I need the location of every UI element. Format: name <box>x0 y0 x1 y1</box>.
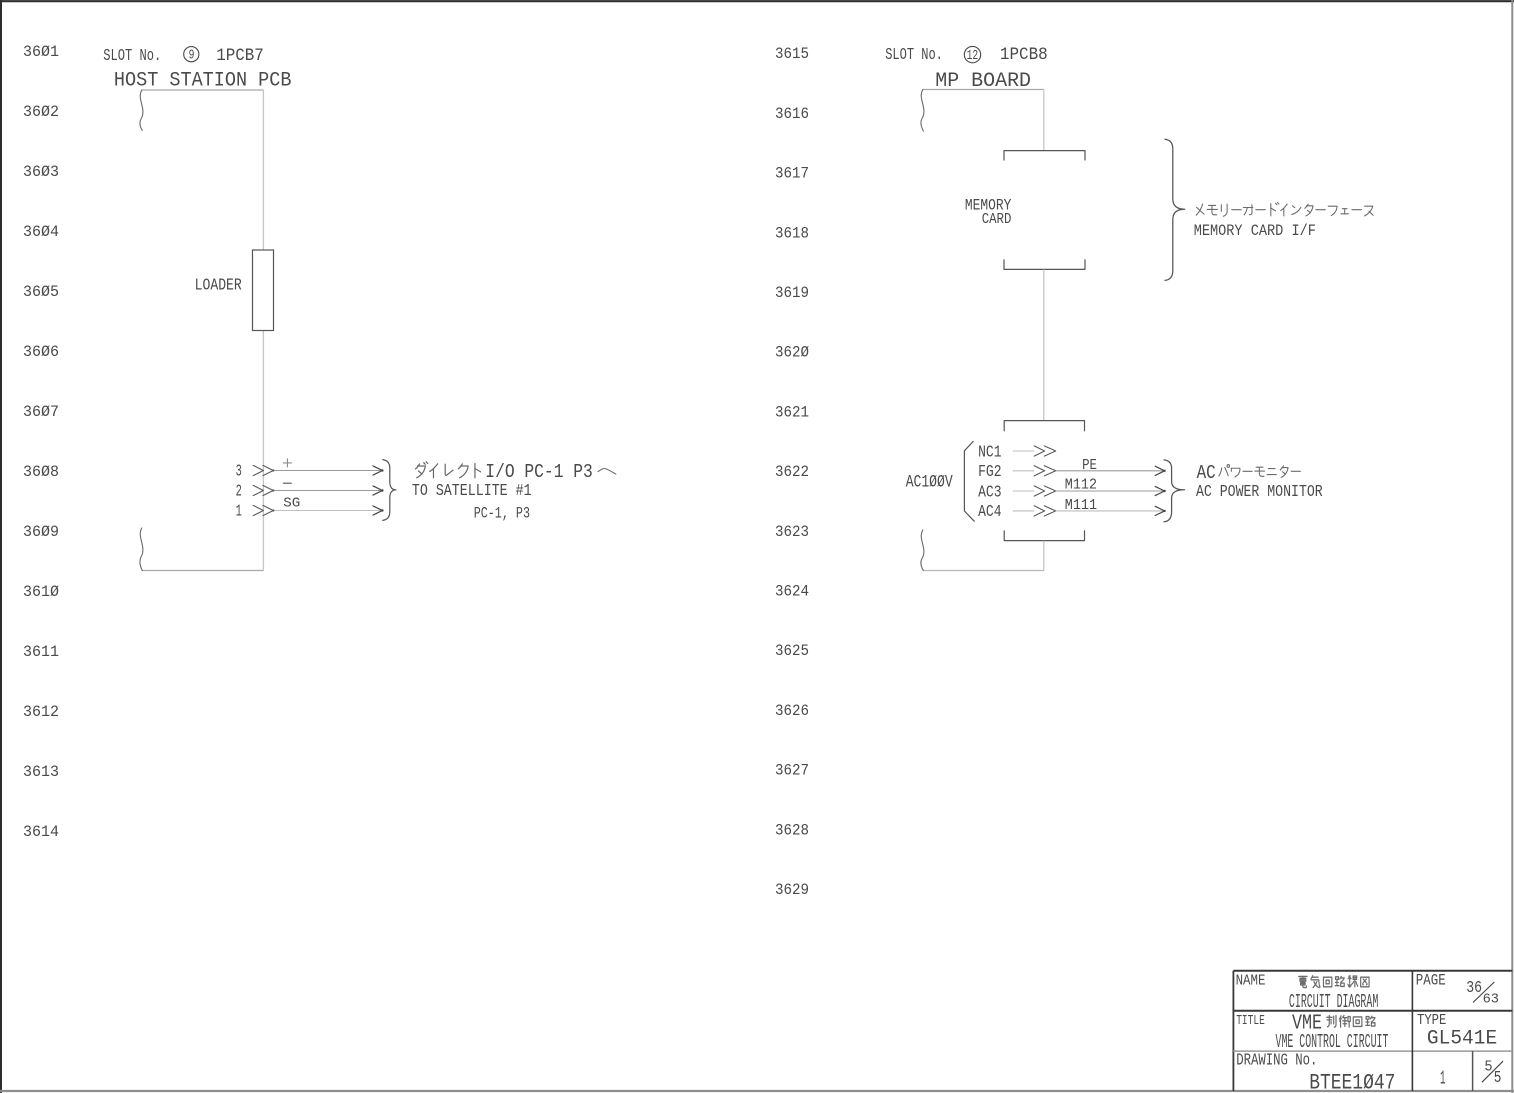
pin 1 wire to satellite <box>273 510 382 512</box>
component MEMORY CARD bottom bracket <box>1004 260 1085 270</box>
pin 1 chevron tip dot <box>272 509 274 511</box>
title block sub divider <box>1472 1051 1474 1091</box>
pin 1 arrow tip dot <box>381 509 383 511</box>
pin FG2 chevron connector <box>1034 466 1056 476</box>
board outline break squiggle bottom-left <box>140 528 143 571</box>
svg-text:361Ø: 361Ø <box>23 583 59 601</box>
svg-text:3621: 3621 <box>775 403 809 421</box>
slot number circle 9 <box>184 47 199 62</box>
svg-text:SLOT No.: SLOT No. <box>885 45 943 64</box>
svg-text:362Ø: 362Ø <box>775 344 809 362</box>
pin 2 arrowhead <box>373 486 382 495</box>
svg-text:PAGE: PAGE <box>1416 971 1446 989</box>
bracket AC100V group <box>964 441 974 521</box>
pin 1 arrowhead <box>373 506 382 515</box>
board outline top wire (left board) <box>142 89 264 91</box>
page border right <box>1511 0 1513 1093</box>
pin FG2 arrow tip dot <box>1163 470 1165 472</box>
pin AC4 wire stub <box>1013 510 1034 512</box>
pin AC4 arrow tip dot <box>1163 510 1165 512</box>
pin FG2 arrowhead <box>1155 466 1164 475</box>
svg-text:LOADER: LOADER <box>195 276 242 295</box>
svg-text:3619: 3619 <box>775 284 809 302</box>
svg-text:1PCB8: 1PCB8 <box>1000 45 1048 65</box>
pin AC4 arrowhead <box>1155 506 1164 515</box>
bus wire below connector <box>1043 541 1045 571</box>
pin 2 arrow tip dot <box>381 489 383 491</box>
page border top <box>0 0 1514 2</box>
svg-text:AC4: AC4 <box>978 502 1001 521</box>
svg-text:M111: M111 <box>1065 496 1097 514</box>
annotation katakana MEMORY CARD INTERFACE (ja) <box>1196 204 1204 215</box>
pin AC3 wire stub <box>1013 490 1034 492</box>
page border bottom <box>0 1090 1514 1092</box>
svg-text:36Ø4: 36Ø4 <box>23 223 59 241</box>
svg-text:63: 63 <box>1483 993 1499 1008</box>
svg-text:2: 2 <box>236 482 242 501</box>
annotation kana HE (ja) <box>598 469 616 475</box>
pin 3 wire to satellite <box>273 470 382 472</box>
svg-text:HOST STATION PCB: HOST STATION PCB <box>114 70 292 93</box>
svg-text:PE: PE <box>1082 456 1097 474</box>
pin 2 chevron tip dot <box>272 489 274 491</box>
pin 3 arrow tip dot <box>381 469 383 471</box>
signal label - <box>283 482 291 484</box>
svg-text:3627: 3627 <box>775 762 809 780</box>
svg-text:5: 5 <box>1494 1068 1502 1087</box>
brace AC power monitor <box>1164 460 1185 522</box>
svg-text:VME CONTROL CIRCUIT: VME CONTROL CIRCUIT <box>1276 1031 1389 1053</box>
title block left edge <box>1232 971 1234 1091</box>
vertical bus wire (left board) <box>262 90 264 571</box>
svg-text:3613: 3613 <box>23 763 59 781</box>
pin AC3 chevron connector <box>1034 486 1056 496</box>
svg-text:36Ø5: 36Ø5 <box>23 283 59 301</box>
svg-text:3622: 3622 <box>775 463 809 481</box>
pin FG2 wire stub <box>1013 470 1034 472</box>
title block row divider 1 <box>1233 1010 1512 1012</box>
svg-text:3629: 3629 <box>775 881 809 899</box>
board outline break squiggle top-right <box>921 90 924 132</box>
svg-text:PC-1, P3: PC-1, P3 <box>474 504 530 522</box>
svg-text:M112: M112 <box>1065 476 1097 494</box>
board outline top wire (right board) <box>923 89 1044 91</box>
svg-text:FG2: FG2 <box>978 462 1001 481</box>
svg-text:CIRCUIT DIAGRAM: CIRCUIT DIAGRAM <box>1289 991 1378 1013</box>
svg-text:3612: 3612 <box>23 703 59 721</box>
svg-text:AC3: AC3 <box>978 482 1001 501</box>
svg-text:36Ø6: 36Ø6 <box>23 343 59 361</box>
svg-text:3617: 3617 <box>775 165 809 183</box>
connector top bracket <box>1004 421 1084 431</box>
title block column divider <box>1411 971 1413 1091</box>
slot number circle 12 <box>964 46 980 62</box>
svg-text:36Ø1: 36Ø1 <box>23 43 59 61</box>
page border left <box>0 0 2 1093</box>
component LOADER box <box>253 250 274 331</box>
title kanji CIRCUIT DIAGRAM (ja) <box>1299 976 1307 987</box>
svg-text:NC1: NC1 <box>978 442 1002 461</box>
svg-text:GL541E: GL541E <box>1427 1028 1497 1051</box>
svg-text:3626: 3626 <box>775 702 809 720</box>
pin 3 chevron connector <box>253 465 273 475</box>
svg-text:MEMORY CARD I/F: MEMORY CARD I/F <box>1194 222 1316 240</box>
pin AC4 wire to monitor <box>1056 510 1165 512</box>
svg-text:36Ø3: 36Ø3 <box>23 163 59 181</box>
pin AC4 chevron connector <box>1034 506 1056 516</box>
annotation katakana POWER MONITOR (ja) <box>1219 465 1230 476</box>
svg-text:36Ø7: 36Ø7 <box>23 403 59 421</box>
svg-text:36: 36 <box>1466 979 1482 998</box>
svg-text:3616: 3616 <box>775 105 809 123</box>
board outline bottom wire (right board) <box>923 570 1044 572</box>
pin AC3 arrowhead <box>1155 486 1164 495</box>
svg-text:TITLE: TITLE <box>1236 1014 1265 1029</box>
svg-text:3618: 3618 <box>775 224 809 242</box>
svg-text:TO SATELLITE #1: TO SATELLITE #1 <box>412 481 532 500</box>
pin 3 chevron tip dot <box>272 469 274 471</box>
svg-text:36Ø9: 36Ø9 <box>23 523 59 541</box>
board outline bottom wire (left board) <box>142 570 264 572</box>
svg-text:3611: 3611 <box>23 643 59 661</box>
svg-text:1: 1 <box>236 502 242 521</box>
signal label + <box>283 459 291 467</box>
title block outer top line <box>1233 970 1512 972</box>
pin 2 chevron connector <box>253 485 273 495</box>
svg-text:1: 1 <box>1440 1067 1446 1089</box>
pin NC1 chevron connector <box>1034 446 1056 456</box>
pin 3 arrowhead <box>373 466 382 475</box>
svg-text:12: 12 <box>967 49 979 64</box>
svg-text:DRAWING No.: DRAWING No. <box>1236 1052 1317 1071</box>
svg-text:AC POWER MONITOR: AC POWER MONITOR <box>1196 482 1323 501</box>
title block row divider 2 <box>1233 1050 1512 1052</box>
svg-text:3614: 3614 <box>23 823 59 841</box>
svg-text:SLOT No.: SLOT No. <box>103 46 161 65</box>
svg-text:3: 3 <box>236 462 242 481</box>
svg-text:36Ø2: 36Ø2 <box>23 103 59 121</box>
pin 2 wire to satellite <box>273 490 382 492</box>
pin FG2 wire to monitor <box>1056 470 1165 472</box>
board outline break squiggle bottom-right <box>921 530 924 571</box>
pin AC3 wire to monitor <box>1056 490 1165 492</box>
bus wire above memory card <box>1043 90 1045 151</box>
svg-text:SG: SG <box>283 497 300 512</box>
svg-text:3628: 3628 <box>775 821 809 839</box>
svg-text:I/O PC-1 P3: I/O PC-1 P3 <box>485 461 593 483</box>
svg-text:3625: 3625 <box>775 642 809 660</box>
pin AC3 arrow tip dot <box>1163 490 1165 492</box>
svg-text:AC1ØØV: AC1ØØV <box>906 473 953 493</box>
svg-text:AC: AC <box>1197 462 1216 484</box>
svg-text:NAME: NAME <box>1236 974 1266 990</box>
title kanji VME CONTROL (ja) <box>1327 1015 1336 1027</box>
svg-text:9: 9 <box>189 48 195 64</box>
sheet fraction slash <box>1482 1061 1503 1082</box>
svg-text:3623: 3623 <box>775 523 809 541</box>
component MEMORY CARD top bracket <box>1004 151 1085 160</box>
svg-text:36Ø8: 36Ø8 <box>23 463 59 481</box>
connector bottom bracket <box>1004 531 1084 541</box>
svg-text:BTEE1Ø47: BTEE1Ø47 <box>1309 1071 1395 1093</box>
page fraction slash <box>1473 982 1494 1003</box>
board outline break squiggle top-left <box>140 90 143 131</box>
svg-text:3624: 3624 <box>775 583 809 601</box>
brace memory card interface <box>1165 139 1185 280</box>
svg-text:1PCB7: 1PCB7 <box>216 46 264 66</box>
brace to satellite cable <box>383 460 396 521</box>
pin 1 chevron connector <box>253 505 273 515</box>
annotation katakana DIRECT I/O (ja) <box>415 462 427 478</box>
svg-text:CARD: CARD <box>982 210 1012 228</box>
bus wire between memory card and connector <box>1043 270 1045 421</box>
svg-text:3615: 3615 <box>775 45 809 63</box>
pin NC1 wire stub <box>1013 450 1034 452</box>
